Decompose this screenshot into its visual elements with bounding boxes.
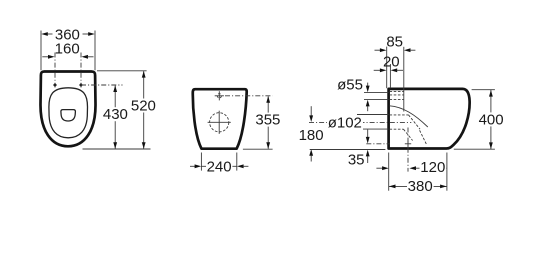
svg-text:20: 20: [383, 53, 400, 70]
svg-text:355: 355: [255, 112, 280, 129]
svg-text:380: 380: [408, 178, 433, 195]
svg-text:120: 120: [420, 159, 445, 176]
svg-text:ø102: ø102: [328, 115, 362, 132]
svg-text:180: 180: [299, 127, 324, 144]
svg-text:520: 520: [131, 98, 156, 115]
svg-text:240: 240: [207, 158, 232, 175]
svg-text:35: 35: [348, 151, 365, 168]
svg-text:430: 430: [103, 106, 128, 123]
svg-text:ø55: ø55: [337, 77, 363, 94]
svg-text:400: 400: [479, 111, 504, 128]
svg-text:160: 160: [55, 40, 80, 57]
svg-text:85: 85: [386, 33, 403, 50]
